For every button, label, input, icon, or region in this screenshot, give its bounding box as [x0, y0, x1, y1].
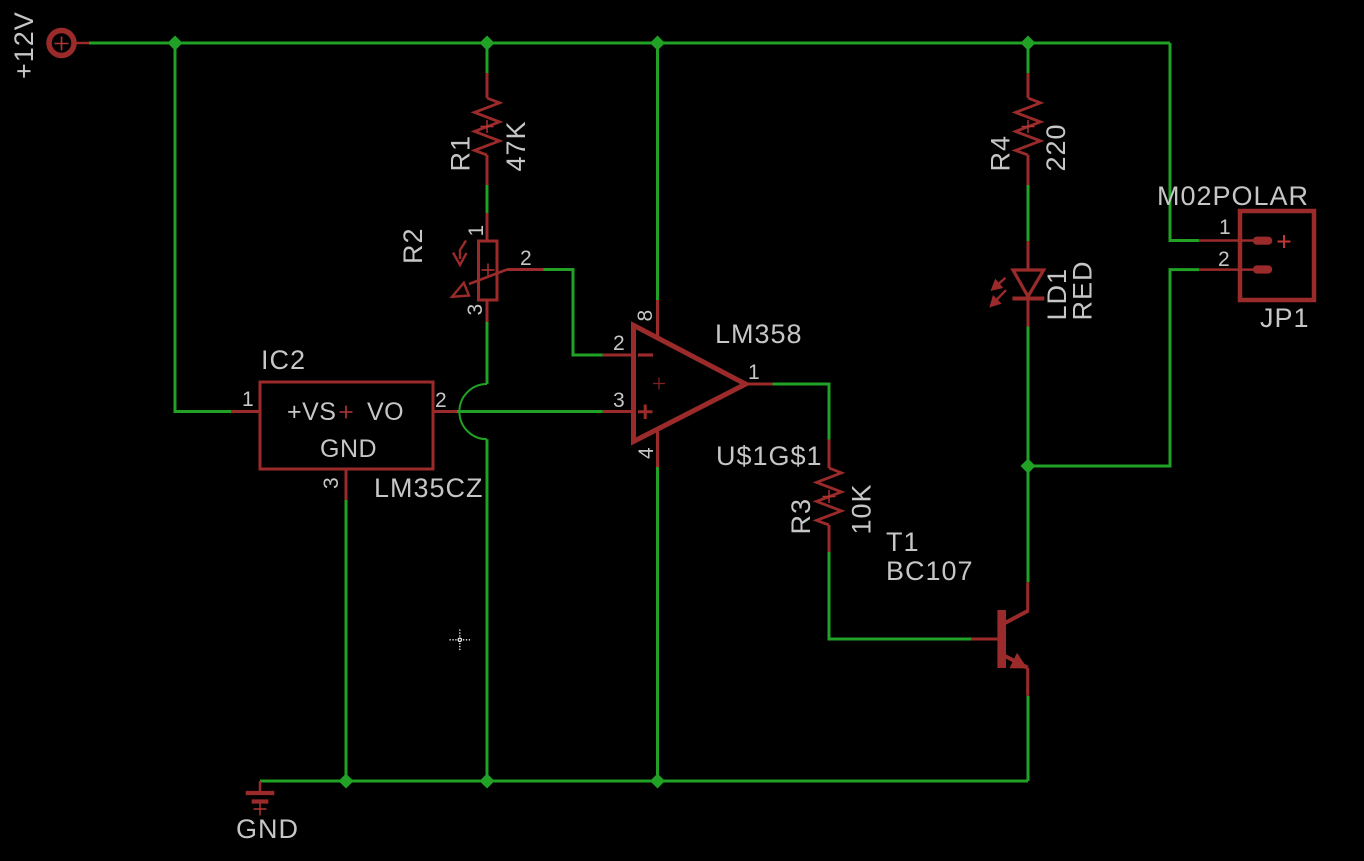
connector JP1 body	[1240, 211, 1314, 300]
junction ground rail IC2	[339, 774, 354, 789]
pin stub op-amp pin1	[746, 383, 773, 386]
junction LED/JP1/collector node	[1021, 459, 1036, 474]
trimmer R2 wiper arrowhead	[452, 283, 469, 297]
pin stub R2 pin1	[486, 213, 489, 241]
trimmer R2 wiper line	[469, 270, 507, 285]
pin stub R2 pin3	[486, 300, 489, 322]
svg-text:LM358: LM358	[715, 319, 803, 349]
junction top rail R4	[1021, 36, 1036, 51]
op-amp origin cross	[653, 378, 665, 390]
trimmer R2 adjust arrow	[453, 241, 467, 266]
pin stub R3 top	[828, 440, 831, 469]
svg-text:3: 3	[464, 304, 487, 316]
junction top rail R1	[480, 36, 495, 51]
pin stub T1 collector	[1026, 582, 1029, 611]
LED LD1 emission arrow 2	[995, 290, 1006, 301]
wire top rail to JP1 pin 1	[1170, 43, 1199, 241]
pin stub R1 bottom	[486, 155, 489, 185]
svg-text:GND: GND	[236, 814, 299, 844]
pin stub op-amp pin8	[656, 300, 659, 340]
resistor R1 zigzag	[475, 98, 500, 155]
transistor T1 emitter diagonal	[1004, 656, 1028, 668]
resistor R1 origin cross	[481, 120, 494, 133]
svg-text:R1: R1	[446, 135, 476, 172]
wire node to T1 collector	[1027, 466, 1030, 582]
svg-text:+VS: +VS	[287, 398, 336, 426]
svg-text:R4: R4	[986, 135, 1016, 172]
svg-text:4: 4	[635, 447, 658, 459]
wire T1 emitter to ground rail	[1027, 696, 1030, 781]
pin stub IC2 pin1	[231, 410, 260, 413]
LED LD1 cathode bar	[1012, 297, 1044, 301]
trimmer R2 body	[479, 241, 498, 300]
IC2 origin cross	[340, 406, 353, 419]
connector JP1 pin2 pad	[1253, 265, 1272, 273]
svg-text:1: 1	[242, 388, 254, 411]
svg-text:JP1: JP1	[1260, 303, 1310, 333]
svg-text:1: 1	[748, 361, 760, 384]
supply pad +12V ring	[49, 31, 74, 56]
wire R4 top lead	[1027, 43, 1030, 73]
pin stub op-amp pin4	[656, 429, 659, 467]
pin stub IC2 pin2	[433, 410, 457, 413]
wire R1 bottom to R2 pin 1	[486, 185, 489, 213]
connector JP1 origin cross	[1278, 235, 1291, 248]
wire ground rail	[260, 780, 1028, 783]
pin stub LED anode	[1027, 241, 1030, 270]
svg-text:T1: T1	[886, 527, 920, 557]
svg-text:R3: R3	[786, 498, 816, 535]
mouse crosshair cursor	[450, 630, 471, 651]
junction ground rail R2	[480, 774, 495, 789]
junction top rail op-amp	[650, 36, 665, 51]
svg-text:3: 3	[320, 477, 343, 489]
wire op-amp pin 4 to ground rail	[656, 467, 659, 781]
svg-text:LM35CZ: LM35CZ	[374, 473, 484, 503]
pin stub R4 bottom	[1027, 155, 1030, 185]
transistor T1 base bar	[997, 610, 1006, 668]
wire LED cathode to node	[1027, 327, 1030, 467]
wire R4 bottom to LED anode	[1027, 185, 1030, 241]
wire R2 pin3 arc to ground rail	[486, 439, 489, 781]
resistor R3 origin cross	[823, 490, 836, 503]
svg-text:BC107: BC107	[886, 556, 974, 586]
op-amp minus symbol	[638, 353, 653, 356]
svg-text:VO: VO	[367, 398, 404, 426]
trimmer R2 origin cross	[482, 264, 495, 277]
svg-text:U$1G$1: U$1G$1	[716, 441, 823, 471]
ground symbol bar 2	[252, 799, 269, 803]
resistor R4 zigzag	[1016, 98, 1041, 155]
pin stub JP1 pin1	[1199, 239, 1257, 242]
svg-text:10K: 10K	[847, 483, 877, 534]
pin stub GND symbol	[259, 781, 262, 792]
LED LD1 triangle	[1013, 270, 1044, 297]
wire R2 pin 3 down to hop arc	[486, 322, 489, 384]
wire hop arc over VO net	[459, 384, 487, 439]
op-amp plus symbol	[638, 405, 653, 420]
svg-text:220: 220	[1041, 123, 1071, 171]
svg-text:R2: R2	[398, 227, 428, 264]
resistor R4 origin cross	[1022, 120, 1035, 133]
resistor R3 zigzag	[817, 468, 842, 525]
connector JP1 pin1 pad	[1253, 237, 1272, 245]
pin stub op-amp pin2	[603, 354, 631, 357]
pin stub op-amp pin3	[603, 410, 631, 413]
svg-text:+12V: +12V	[9, 11, 39, 79]
wire R1 top lead	[486, 43, 489, 73]
pin stub T1 emitter	[1026, 668, 1029, 696]
pin stub R4 top	[1027, 73, 1030, 98]
pin stub R3 bottom	[828, 525, 831, 552]
svg-text:IC2: IC2	[261, 345, 306, 375]
pin stub T1 base	[971, 638, 997, 641]
wire op-amp pin 8 to top rail	[656, 43, 659, 300]
pin stub JP1 pin2	[1199, 268, 1257, 271]
LED LD1 emission arrow 1	[997, 278, 1006, 285]
transistor T1 emitter arrowhead	[1010, 653, 1028, 669]
pin stub R1 top	[486, 73, 489, 98]
svg-text:2: 2	[613, 332, 625, 355]
pin stub IC2 pin3	[345, 469, 348, 500]
svg-text:M02POLAR: M02POLAR	[1157, 181, 1309, 211]
junction top rail left	[168, 36, 183, 51]
svg-text:47K: 47K	[501, 120, 531, 171]
svg-text:8: 8	[634, 310, 657, 322]
svg-text:GND: GND	[320, 435, 377, 463]
junction ground rail op-amp	[650, 774, 665, 789]
wire IC2 pin 3 to ground rail	[345, 500, 348, 781]
svg-text:2: 2	[1218, 248, 1230, 271]
supply pad +12V cross	[55, 37, 69, 51]
wire node to JP1 pin 2	[1028, 270, 1199, 466]
svg-text:1: 1	[1219, 216, 1231, 239]
ground symbol origin cross	[254, 803, 267, 816]
wire R3 bottom to T1 base	[829, 552, 971, 639]
IC2 body	[260, 382, 433, 469]
wire R2 pin 2 to op-amp pin 2	[544, 270, 603, 356]
wire left drop to IC2 pin 1	[175, 43, 231, 412]
pin stub LED cathode	[1027, 299, 1030, 327]
svg-text:2: 2	[520, 247, 532, 270]
svg-text:3: 3	[613, 389, 625, 412]
op-amp U1 triangle	[634, 325, 746, 441]
wire +12V rail top	[89, 42, 1170, 45]
transistor T1 collector diagonal	[1004, 611, 1029, 624]
svg-text:RED: RED	[1068, 260, 1098, 320]
svg-text:1: 1	[465, 225, 488, 237]
svg-text:2: 2	[435, 389, 447, 412]
pin stub R2 pin2	[507, 268, 544, 271]
wire IC2 VO to op-amp pin 3	[457, 410, 603, 413]
pin stub +12V pad	[76, 42, 89, 45]
wire op-amp output to R3 top	[772, 384, 829, 440]
ground symbol bar 1	[246, 791, 275, 795]
